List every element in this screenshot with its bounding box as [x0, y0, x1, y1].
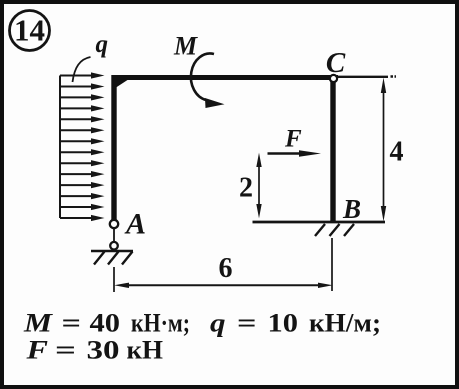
svg-text:2: 2 [239, 173, 253, 204]
force F arrow [268, 150, 322, 157]
dimension 6 (double arrow with extension lines) [114, 238, 333, 292]
svg-text:A: A [124, 208, 146, 241]
svg-text:14: 14 [14, 13, 45, 48]
support B ground line and hatching [253, 222, 386, 236]
svg-text:q: q [96, 31, 109, 58]
problem number badge 14 [10, 11, 50, 51]
corner fillet top-left [116, 80, 128, 88]
distributed load q (14 arrows onto left column) [60, 72, 105, 221]
svg-text:B: B [342, 194, 361, 224]
svg-text:M=40кН·м;q=10кН/м;: M=40кН·м;q=10кН/м; [23, 309, 381, 338]
extension line right of C (dashed tail) [338, 75, 396, 78]
svg-text:F=30кН: F=30кН [25, 336, 163, 365]
svg-text:C: C [326, 47, 346, 79]
label q with leader line [73, 31, 109, 82]
svg-text:6: 6 [219, 253, 233, 284]
hinge C [330, 75, 337, 82]
svg-text:M: M [173, 32, 198, 61]
dimension 4 (double arrow) [381, 78, 404, 222]
frame top beam [112, 75, 339, 80]
dimension 2 (double arrow) [239, 153, 262, 219]
support A roller link (two hinges + hatching) [91, 220, 133, 265]
frame left column A-top [111, 75, 116, 220]
frame right column C-B [330, 80, 335, 223]
svg-text:4: 4 [390, 137, 404, 168]
svg-text:F: F [284, 126, 302, 153]
moment M arc arrow [191, 53, 225, 108]
